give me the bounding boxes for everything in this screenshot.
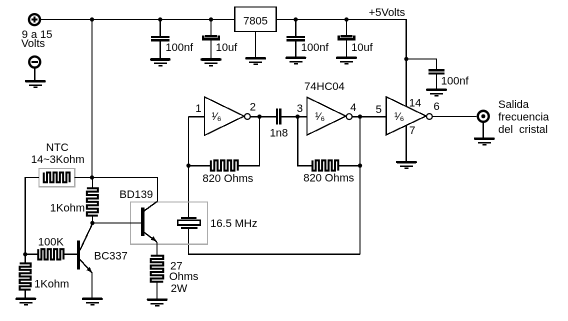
- svg-text:6: 6: [434, 101, 440, 113]
- node junction inv2in/feedback: [296, 115, 300, 119]
- wire feedback right vertical: [359, 117, 361, 255]
- node junction R1/crystal line: [186, 164, 190, 168]
- wire NTC right lead: [75, 177, 92, 179]
- node junction rail/C4: [344, 17, 348, 21]
- ground C5: [426, 89, 447, 97]
- svg-text:10uf: 10uf: [216, 42, 238, 54]
- wire NTC left lead: [25, 178, 39, 255]
- op-amp U1B inverter 1/6: [307, 97, 352, 135]
- wire terminal- to ground: [34, 68, 36, 80]
- capacitor C2 10uf polarized: [203, 20, 218, 59]
- svg-text:100nf: 100nf: [301, 42, 329, 54]
- op-amp U1A inverter 1/6: [204, 97, 250, 135]
- label Salida frecuencia del cristal: [498, 99, 550, 136]
- capacitor C5 100nf: [428, 69, 444, 89]
- svg-text:10uf: 10uf: [351, 42, 373, 54]
- wire node to BD139 base: [92, 222, 141, 224]
- resistor R4 27 Ohms 2W: [151, 256, 163, 299]
- svg-text:7: 7: [409, 125, 415, 137]
- svg-text:4: 4: [350, 102, 356, 114]
- ground (negative terminal): [25, 80, 46, 88]
- node junction 100K/R6: [23, 252, 27, 256]
- svg-text:Salida: Salida: [498, 99, 529, 111]
- label 27 Ohms 2W R4: [169, 261, 199, 295]
- svg-text:Ohms: Ohms: [169, 271, 199, 283]
- regulator U2 7805: [235, 7, 276, 32]
- svg-text:1Kohm: 1Kohm: [50, 203, 85, 215]
- svg-text:820 Ohms: 820 Ohms: [203, 173, 254, 185]
- node junction NTC/R3: [90, 175, 94, 179]
- ground output: [474, 137, 495, 145]
- svg-text:BD139: BD139: [119, 189, 153, 201]
- terminal - (negative): [29, 57, 40, 68]
- node junction rail/NTC branch: [90, 17, 94, 21]
- op-amp U1C inverter 1/6: [386, 97, 432, 135]
- wire output terminal to ground: [482, 122, 484, 138]
- ground C3: [285, 57, 306, 65]
- wire NTC branch vertical: [91, 20, 93, 178]
- ground C4: [336, 57, 357, 65]
- ground C2: [201, 58, 222, 66]
- resistor R3 1Kohm vertical: [87, 178, 98, 224]
- node junction R3/BC337 collector: [90, 221, 94, 225]
- wire crystal line to inverter1 input: [189, 117, 205, 218]
- svg-text:14~3Kohm: 14~3Kohm: [31, 154, 85, 166]
- wire inverter1 out to C6: [250, 116, 276, 118]
- svg-text:16.5 MHz: 16.5 MHz: [210, 218, 257, 230]
- wire top rail right of 7805: [276, 19, 407, 21]
- label 9 a 15 Volts: [21, 29, 52, 50]
- node junction rail/C1: [158, 17, 162, 21]
- svg-text:100nf: 100nf: [441, 76, 469, 88]
- svg-text:del cristal: del cristal: [498, 124, 548, 136]
- svg-text:¹⁄₆: ¹⁄₆: [315, 111, 325, 123]
- ground Q1 emitter: [82, 298, 103, 306]
- svg-text:BC337: BC337: [94, 250, 128, 262]
- resistor R1 820 Ohms (feedback inv1): [189, 117, 260, 171]
- svg-text:5: 5: [376, 104, 382, 116]
- ground 7805: [245, 57, 266, 65]
- node junction inv2out/feedback2: [358, 115, 362, 119]
- wire NTC node to BD139 collector: [92, 178, 157, 202]
- svg-text:NTC: NTC: [46, 142, 69, 154]
- resistor R6 1Kohm vertical: [20, 254, 31, 297]
- node junction inv1out/feedback: [257, 115, 261, 119]
- terminal output salida: [478, 111, 489, 122]
- wire branch to C5: [406, 59, 436, 69]
- wire top rail left: [40, 19, 235, 21]
- svg-text:3: 3: [297, 103, 303, 115]
- capacitor C1 100nf: [151, 20, 169, 59]
- thermistor NTC boxed resistor: [39, 169, 75, 187]
- svg-text:1Kohm: 1Kohm: [34, 278, 69, 290]
- box module outline (BD139+crystal): [131, 202, 208, 244]
- svg-text:74HC04: 74HC04: [304, 81, 344, 93]
- terminal + (9-15V input): [29, 14, 40, 25]
- svg-text:frecuencia: frecuencia: [498, 111, 550, 123]
- ground C1: [150, 58, 171, 66]
- wire 7805 to ground: [255, 32, 257, 58]
- svg-text:1: 1: [195, 103, 201, 115]
- node junction R2/feedback line: [358, 164, 362, 168]
- svg-text:100K: 100K: [38, 236, 64, 248]
- node junction +5V/C5: [404, 57, 408, 61]
- svg-text:+5Volts: +5Volts: [369, 7, 406, 19]
- svg-text:¹⁄₆: ¹⁄₆: [394, 111, 404, 123]
- ground U1 pin7: [396, 161, 417, 169]
- transistor Q1 BC337: [77, 224, 93, 298]
- wire U1 pin7 to ground: [405, 125, 407, 161]
- capacitor C4 10uf polarized: [339, 20, 354, 57]
- capacitor C3 100nf: [287, 20, 305, 57]
- wire inverter3 out to output terminal: [432, 116, 476, 118]
- wire inverter2 out to inverter3 in: [352, 116, 386, 118]
- ground R6: [15, 298, 36, 306]
- ground R4: [147, 298, 168, 306]
- wire +5V drop to U1 pin14: [405, 19, 407, 107]
- svg-text:Volts: Volts: [21, 38, 45, 50]
- svg-text:1n8: 1n8: [270, 128, 288, 140]
- svg-text:2: 2: [250, 102, 256, 114]
- svg-text:820 Ohms: 820 Ohms: [303, 173, 354, 185]
- node junction rail/C2: [209, 17, 213, 21]
- wire crystal bottom loop: [189, 229, 361, 255]
- svg-text:2W: 2W: [171, 283, 188, 295]
- wire C6 to inverter2 input: [281, 116, 307, 118]
- node junction rail/C3: [294, 17, 298, 21]
- svg-text:¹⁄₆: ¹⁄₆: [212, 111, 222, 123]
- svg-text:7805: 7805: [243, 15, 267, 27]
- svg-text:14: 14: [409, 98, 421, 110]
- crystal X1 16.5 MHz: [178, 217, 200, 229]
- svg-text:100nf: 100nf: [166, 42, 194, 54]
- resistor R2 820 Ohms (feedback inv2): [298, 117, 360, 171]
- resistor R5 100K: [25, 249, 77, 259]
- capacitor C6 1n8: [276, 109, 281, 125]
- transistor Q2 BD139: [141, 201, 157, 256]
